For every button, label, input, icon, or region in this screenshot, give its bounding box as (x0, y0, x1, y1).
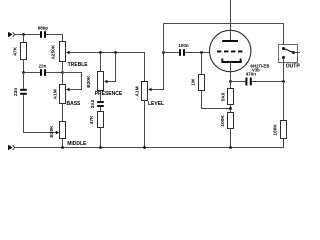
potentiometer VR4 PRESENCE B20K (86, 72, 123, 97)
svg-text:47K: 47K (89, 115, 95, 124)
wire R5 to rail (230, 129, 232, 148)
switch terminal top (282, 47, 285, 50)
ground jack J2 (8, 145, 15, 151)
wire 680p to treble top (46, 35, 63, 42)
svg-text:A1M: A1M (53, 89, 59, 99)
wire middle bottom to rail (62, 139, 64, 148)
svg-text:BASS: BASS (67, 101, 82, 107)
wire node A down to C3 (23, 73, 25, 89)
node rail divider (229, 146, 232, 149)
switch lever (284, 49, 294, 53)
potentiometer VR3 MIDDLE B20K (49, 122, 87, 148)
wire output node to R6 (283, 82, 285, 121)
potentiometer VR2 BASS A1M (53, 85, 81, 108)
node rail middle (61, 146, 64, 149)
wire C3 to middle wiper (24, 95, 56, 133)
wire bypass top rail (164, 24, 284, 45)
svg-text:LEVEL: LEVEL (148, 101, 164, 107)
capacitor C1 680p (38, 26, 49, 38)
resistor R6 100K (273, 121, 287, 139)
wiper arrow treble (66, 51, 69, 54)
svg-text:680p: 680p (38, 26, 49, 31)
resistor R2 47K (89, 112, 104, 128)
capacitor C4 2n2 (90, 100, 104, 109)
svg-text:B20K: B20K (86, 75, 92, 88)
wire cathode to node K (230, 63, 232, 82)
svg-text:A1M: A1M (135, 86, 141, 96)
wire node A to C2 (24, 72, 41, 74)
wire level bottom to rail (144, 101, 146, 148)
wire grid node to R3 (201, 53, 203, 75)
capacitor C2 22n (39, 64, 47, 76)
wire treble bottom to bass top (62, 62, 64, 85)
svg-text:TREBLE: TREBLE (68, 62, 89, 68)
svg-text:100n: 100n (178, 43, 189, 48)
svg-text:100K: 100K (273, 124, 279, 136)
node K (229, 80, 232, 83)
wire C2 to bass node (46, 72, 63, 74)
svg-text:1M: 1M (191, 79, 197, 86)
wire bass wiper loop (63, 73, 82, 90)
wire treble wiper bus (69, 53, 144, 82)
wire input to 680p (15, 34, 40, 36)
tube grid dashes (217, 51, 242, 53)
wire node K to C6 (231, 81, 246, 83)
svg-text:PRESENCE: PRESENCE (95, 91, 123, 97)
svg-text:22n: 22n (13, 88, 19, 96)
svg-text:470n: 470n (246, 71, 257, 76)
node B junction dot (61, 71, 64, 74)
wiper arrow bass (66, 88, 69, 91)
wiper arrow level (148, 88, 151, 91)
svg-text:100K: 100K (220, 115, 226, 127)
wire bypass riser (163, 24, 165, 53)
wire R1 to node A (23, 60, 25, 73)
node A (22, 71, 25, 74)
node output (282, 80, 285, 83)
resistor R4 5K6 (220, 89, 233, 105)
node rail level (143, 146, 146, 149)
resistor R1 47K (12, 43, 26, 60)
capacitor C3 22n (13, 88, 27, 96)
wire R3 to divider node (202, 91, 231, 109)
node input junction (22, 33, 25, 36)
tube cathode (221, 59, 241, 64)
node presence wiper tie (114, 51, 117, 54)
wire presence wiper tie (107, 53, 115, 82)
resistor R3 1M (191, 75, 205, 91)
capacitor C6 470n (245, 71, 256, 85)
wire switch bottom to output node (283, 58, 285, 82)
wire plate B+ riser (230, 0, 232, 40)
svg-text:A250K: A250K (51, 44, 57, 59)
input jack J1 (8, 32, 15, 38)
node divider (229, 107, 232, 110)
svg-text:22n: 22n (39, 64, 47, 69)
svg-text:5K6: 5K6 (220, 92, 226, 101)
node rail presence (99, 146, 102, 149)
wiper arrow middle pot (56, 131, 59, 134)
capacitor C5 100n (178, 43, 189, 56)
wire node K to R4 (230, 82, 232, 89)
svg-text:B20K: B20K (49, 125, 55, 138)
wiper arrow presence (104, 80, 107, 83)
svg-text:2n2: 2n2 (90, 100, 96, 109)
switch terminal bottom (282, 56, 285, 59)
svg-text:MIDDLE: MIDDLE (67, 141, 87, 147)
wire grid bus to C5 (164, 52, 180, 54)
node presence top (99, 51, 102, 54)
svg-text:47K: 47K (12, 46, 18, 55)
svg-text:OUTPUT: OUTPUT (286, 64, 300, 70)
wire switch common to output (294, 52, 301, 54)
tube plate (222, 40, 238, 42)
tube V3b 6H2P-EB envelope (210, 30, 251, 71)
tube labels (250, 64, 270, 73)
wire presence pot to C4 (100, 91, 102, 102)
switch SW1 box (279, 45, 298, 63)
wire bass bottom to middle top (62, 104, 64, 122)
wire R4 to divider node (230, 105, 232, 113)
node grid bus tap (162, 51, 165, 54)
wire R6 to rail corner (15, 139, 284, 148)
wire C6 to output node (252, 81, 284, 83)
resistor R5 100K (220, 113, 233, 129)
wire C5 to grid (185, 52, 210, 54)
wire R2 to rail (100, 128, 102, 148)
wire level wiper to grid bus (151, 53, 163, 90)
wire bus to presence pot (100, 53, 102, 72)
node grid / 1M (200, 51, 203, 54)
switch terminal common (292, 51, 295, 54)
potentiometer VR1 TREBLE A250K (51, 42, 89, 68)
wire junction to R1 (23, 35, 25, 43)
wire C4 to R2 (100, 107, 102, 112)
potentiometer VR5 LEVEL A1M (135, 82, 164, 108)
